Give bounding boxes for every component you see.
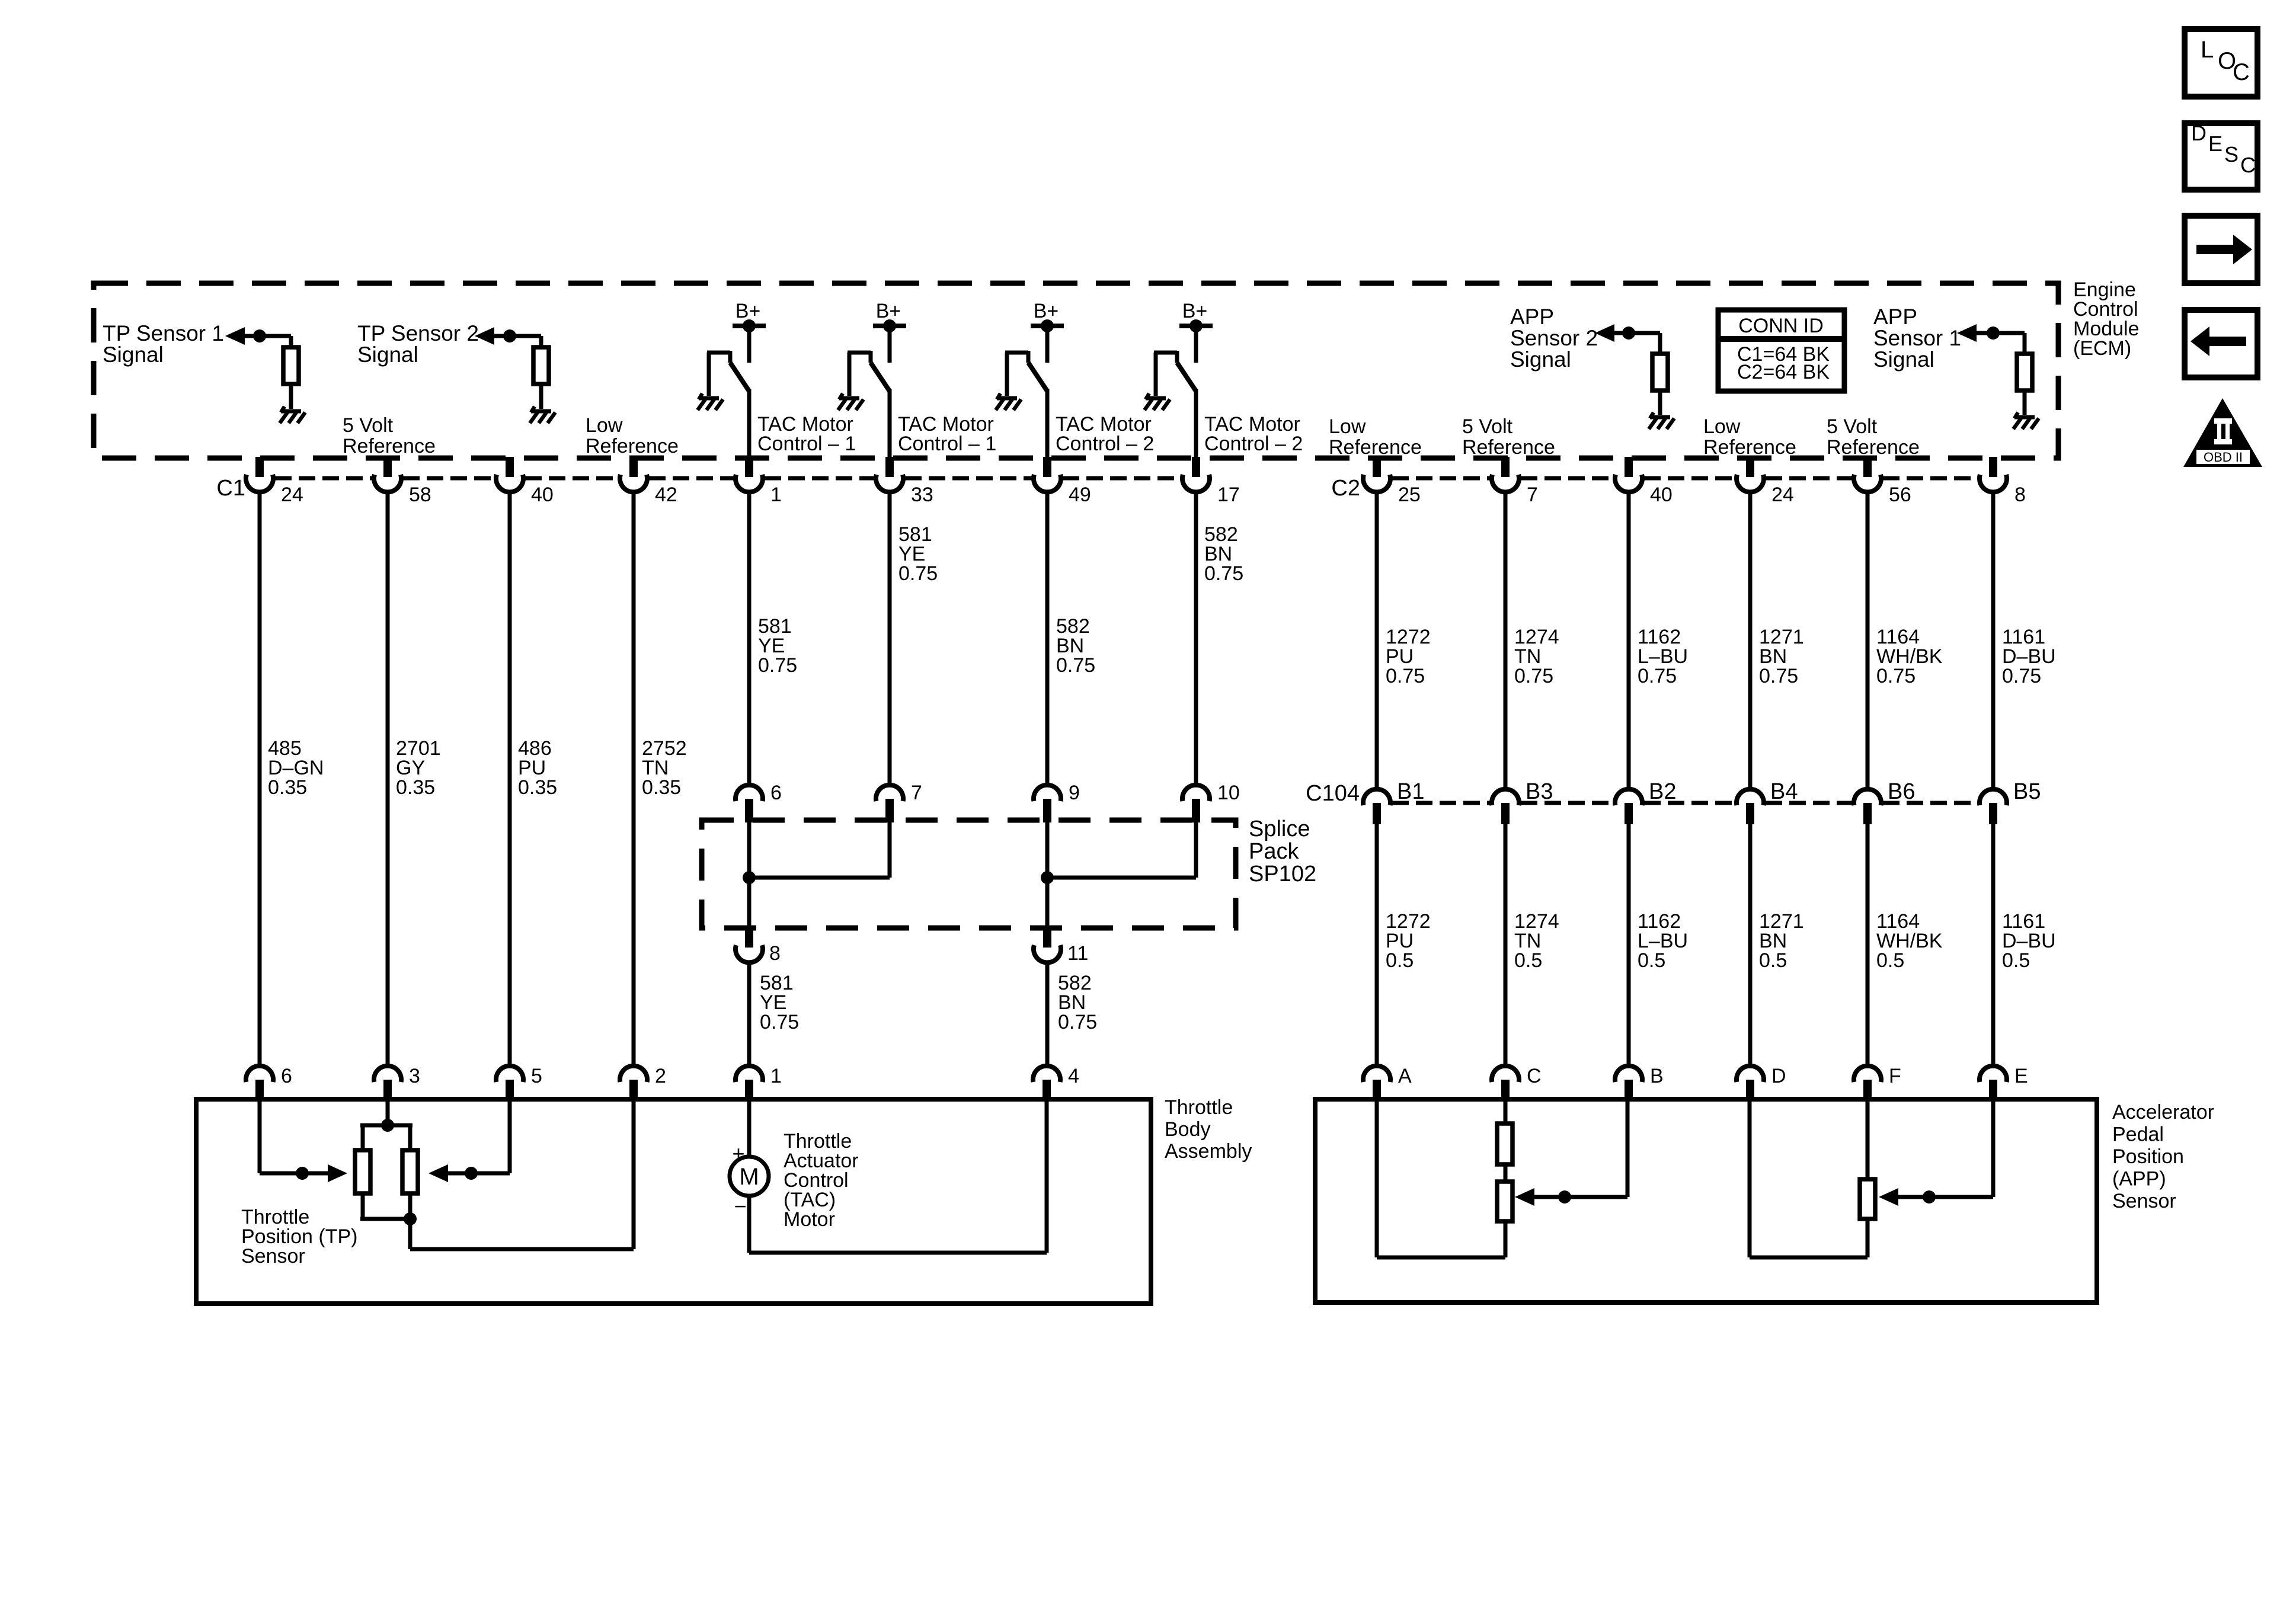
svg-text:17: 17: [1217, 484, 1240, 506]
APP Sensor 1 node dot: [1987, 327, 2000, 340]
resistor pull-up APP Sensor 2: [1629, 331, 1660, 335]
pin D of APP sensor connector (terminal): [1737, 1066, 1764, 1082]
svg-text:0.75: 0.75: [1204, 562, 1243, 585]
resistor pull-up TP Sensor 1: [260, 334, 291, 338]
wire 1164 WH/BK (C104 to APP sensor): [1866, 824, 1870, 1068]
TP sensor top bracket: [361, 1125, 365, 1150]
svg-text:Accelerator: Accelerator: [2112, 1101, 2214, 1124]
TP Sensor 2 signal arrow: [475, 327, 494, 345]
svg-text:(APP): (APP): [2112, 1168, 2166, 1190]
svg-text:TP Sensor 2: TP Sensor 2: [357, 321, 479, 345]
wire 582 BN (C1-17 to SP102-10): [1194, 491, 1198, 787]
svg-text:C: C: [1527, 1065, 1542, 1087]
pin B of APP sensor connector (terminal): [1615, 1066, 1642, 1082]
svg-text:L: L: [2201, 37, 2214, 63]
svg-text:B+: B+: [1182, 300, 1208, 322]
TP sensor wiper 2 dot: [465, 1167, 478, 1180]
svg-text:0.75: 0.75: [1876, 665, 1916, 687]
pin 17 of C1 (terminal): [1192, 457, 1200, 477]
svg-text:B+: B+: [736, 300, 761, 322]
pin 8 of C2 (terminal): [1989, 457, 1997, 477]
svg-text:40: 40: [531, 484, 554, 506]
pin 2 of throttle body connector (terminal): [620, 1066, 647, 1082]
svg-text:Reference: Reference: [1329, 436, 1422, 459]
pin 3 of throttle body connector (terminal): [374, 1066, 401, 1082]
svg-text:B+: B+: [1034, 300, 1059, 322]
pin B4 of C104 (terminal): [1737, 789, 1764, 805]
wire 1162 L-BU (C104 to APP sensor): [1627, 824, 1631, 1068]
TP sensor 5V feed wire: [386, 1099, 390, 1125]
pin 49 of C1 (terminal): [1043, 457, 1051, 477]
APP pot 2 resistor R5: [1860, 1179, 1875, 1219]
svg-text:0.5: 0.5: [1386, 949, 1414, 972]
TP sensor wiper 1 dot: [296, 1167, 309, 1180]
ground TP Sensor 1 resistor: [281, 409, 301, 414]
APP pot 1 5V feed wire: [1504, 1099, 1508, 1124]
pin A of APP sensor connector (terminal): [1363, 1066, 1390, 1082]
svg-text:C1: C1: [216, 476, 245, 501]
svg-text:D: D: [2191, 121, 2207, 145]
svg-text:Reference: Reference: [343, 435, 436, 457]
resistor pull-up APP Sensor 1: [1993, 331, 2025, 335]
svg-text:42: 42: [655, 484, 677, 506]
icon OBD II triangle: [2183, 398, 2262, 467]
pin B2 of C104 (terminal): [1615, 789, 1642, 805]
svg-text:B1: B1: [1397, 779, 1424, 804]
wire 581 YE (SP102-8 to TAC motor): [747, 962, 752, 1068]
splice node dot (582): [1041, 871, 1054, 884]
svg-text:C2: C2: [1331, 476, 1360, 501]
svg-text:Sensor 1: Sensor 1: [1873, 326, 1961, 350]
TP sensor resistor R2: [402, 1150, 418, 1193]
icon right-arrow box: [2185, 216, 2257, 283]
svg-text:APP: APP: [1510, 305, 1554, 329]
pin F of APP sensor connector (terminal): [1854, 1066, 1881, 1082]
connector C1 dotted harness line: [275, 476, 1181, 481]
svg-text:0.75: 0.75: [1058, 1011, 1097, 1033]
pin 7 of C2 (terminal): [1501, 457, 1510, 477]
svg-text:Sensor: Sensor: [2112, 1190, 2176, 1212]
wire 1271 BN (C2 to C104): [1748, 491, 1753, 791]
svg-text:3: 3: [409, 1065, 420, 1087]
svg-text:Signal: Signal: [1510, 347, 1571, 372]
svg-text:8: 8: [2014, 484, 2026, 506]
TP sensor resistor R1: [355, 1150, 370, 1193]
svg-text:B5: B5: [2013, 779, 2041, 804]
svg-text:Reference: Reference: [1703, 436, 1796, 459]
svg-text:0.75: 0.75: [2002, 665, 2041, 687]
TP sensor low-ref node dot: [404, 1212, 417, 1225]
pin 33 of C1 (terminal): [885, 457, 894, 477]
pin 25 of C2 (terminal): [1373, 457, 1381, 477]
splice pack SP102 dashed box: [702, 820, 1236, 928]
svg-text:C104: C104: [1306, 781, 1360, 806]
svg-text:C2=64 BK: C2=64 BK: [1737, 361, 1830, 383]
pin 42 of C1 (terminal): [629, 457, 638, 477]
APP pot 1 wiper dot: [1558, 1190, 1571, 1204]
svg-text:Sensor 2: Sensor 2: [1510, 326, 1598, 350]
svg-text:0.35: 0.35: [268, 776, 307, 799]
Accelerator Pedal Position (APP) Sensor box: [1315, 1099, 2097, 1302]
svg-text:0.5: 0.5: [1876, 949, 1904, 972]
svg-text:7: 7: [911, 782, 922, 804]
icon DESC box: [2185, 123, 2257, 190]
svg-text:8: 8: [769, 942, 781, 965]
APP pot 1 resistor R4: [1497, 1182, 1512, 1221]
svg-text:Position: Position: [2112, 1145, 2184, 1168]
TP Sensor 1 node dot: [253, 329, 266, 343]
pin 10 of SP102 (terminal): [1182, 785, 1210, 801]
svg-text:Motor: Motor: [784, 1208, 835, 1231]
svg-text:0.75: 0.75: [1386, 665, 1425, 687]
svg-text:6: 6: [770, 782, 782, 804]
svg-text:1: 1: [770, 484, 782, 506]
APP pot 2 5V feed wire: [1866, 1099, 1870, 1179]
svg-text:Sensor: Sensor: [241, 1245, 305, 1267]
APP pot 2 wiper wire: [1991, 1099, 1996, 1197]
pin 5 of throttle body connector (terminal): [496, 1066, 523, 1082]
svg-text:58: 58: [409, 484, 431, 506]
wire 1272 PU (C104 to APP sensor): [1375, 824, 1379, 1068]
svg-text:0.75: 0.75: [1514, 665, 1553, 687]
svg-text:(ECM): (ECM): [2073, 337, 2131, 360]
APP pot 2 wiper dot: [1923, 1190, 1936, 1204]
svg-text:M: M: [739, 1164, 759, 1190]
APP Sensor 2 signal arrow: [1595, 324, 1614, 342]
splice node dot (581): [743, 871, 756, 884]
wire 1272 PU (C2 to C104): [1375, 491, 1379, 791]
wire 2752 TN (C1-42 to TP2): [632, 491, 636, 1068]
TP sensor wiper 2 wire: [508, 1099, 512, 1173]
svg-text:SP102: SP102: [1249, 862, 1316, 886]
svg-text:B2: B2: [1649, 779, 1676, 804]
connector C104 dotted harness line: [1392, 801, 1978, 805]
svg-text:11: 11: [1067, 942, 1088, 965]
svg-text:Low: Low: [1703, 415, 1741, 438]
svg-text:Control – 2: Control – 2: [1204, 433, 1303, 455]
TP sensor low-ref return wire: [408, 1219, 412, 1249]
wire 485 D-GN (C1-24 to TP6): [258, 491, 262, 1068]
svg-text:0.75: 0.75: [1759, 665, 1798, 687]
svg-text:OBD II: OBD II: [2204, 450, 2243, 465]
svg-text:F: F: [1889, 1065, 1901, 1087]
pin 40 of C1 (terminal): [506, 457, 514, 477]
svg-text:0.5: 0.5: [1514, 949, 1542, 972]
svg-text:B4: B4: [1770, 779, 1798, 804]
pin B3 of C104 (terminal): [1492, 789, 1519, 805]
svg-text:Signal: Signal: [103, 343, 164, 367]
APP pot 1 resistor R3: [1497, 1124, 1512, 1164]
svg-text:0.75: 0.75: [1638, 665, 1677, 687]
splice jumper 6 to 7: [749, 876, 890, 880]
svg-text:0.35: 0.35: [642, 776, 681, 799]
svg-text:9: 9: [1069, 782, 1080, 804]
svg-text:B+: B+: [876, 300, 901, 322]
svg-text:0.75: 0.75: [898, 562, 938, 585]
APP Sensor 2 node dot: [1622, 327, 1635, 340]
resistor pull-up TP Sensor 2: [510, 334, 541, 338]
icon LOC box: [2185, 29, 2257, 97]
svg-text:4: 4: [1068, 1065, 1079, 1087]
svg-text:5: 5: [531, 1065, 542, 1087]
TAC motor M1 circle: [730, 1157, 769, 1196]
svg-text:24: 24: [281, 484, 303, 506]
TAC motor feed wire: [747, 1099, 752, 1157]
APP pot 1 link wire: [1504, 1164, 1508, 1182]
svg-text:0.5: 0.5: [1638, 949, 1665, 972]
TP sensor bottom bracket: [361, 1193, 365, 1219]
svg-text:CONN ID: CONN ID: [1738, 315, 1824, 337]
svg-text:Assembly: Assembly: [1165, 1140, 1252, 1163]
svg-text:S: S: [2224, 142, 2239, 167]
svg-text:+: +: [732, 1141, 744, 1166]
pin B6 of C104 (terminal): [1854, 789, 1881, 805]
svg-text:Reference: Reference: [1462, 436, 1555, 459]
TP Sensor 2 node dot: [503, 329, 516, 343]
ECM dashed enclosure box: [94, 283, 2058, 458]
wire 581 YE (C1-1 to SP102-6): [747, 491, 752, 787]
TAC driver transistor switch Q1: [699, 396, 719, 401]
pin 6 of SP102 (terminal): [736, 785, 763, 801]
svg-text:7: 7: [1527, 484, 1538, 506]
CONN ID table: [1718, 310, 1844, 391]
svg-text:TP Sensor 1: TP Sensor 1: [103, 321, 224, 345]
TP Sensor 1 signal arrow: [225, 327, 245, 345]
APP Sensor 1 signal arrow: [1957, 324, 1977, 342]
svg-text:Throttle: Throttle: [1165, 1096, 1233, 1119]
wire 1162 L-BU (C2 to C104): [1627, 491, 1631, 791]
pin 6 of throttle body connector (terminal): [246, 1066, 273, 1082]
svg-text:APP: APP: [1873, 305, 1917, 329]
pin 24 of C2 (terminal): [1746, 457, 1754, 477]
svg-text:33: 33: [911, 484, 933, 506]
wire 1271 BN (C104 to APP sensor): [1748, 824, 1753, 1068]
pin 4 of throttle body connector (terminal): [1033, 1066, 1060, 1082]
svg-text:C: C: [2240, 153, 2256, 177]
svg-text:6: 6: [281, 1065, 292, 1087]
TP sensor wiper 1 wire: [258, 1099, 262, 1173]
TP sensor wiper 1 arrow: [328, 1164, 347, 1182]
splice jumper 9 to 10: [1047, 876, 1196, 880]
svg-text:C: C: [2233, 59, 2250, 85]
APP pot 1 wiper arrow: [1515, 1188, 1534, 1206]
svg-text:Control – 1: Control – 1: [757, 433, 856, 455]
wire 581 YE (C1-33 to SP102-7): [888, 491, 892, 787]
ground TP Sensor 2 resistor: [531, 409, 551, 414]
APP pot 2 wiper arrow: [1879, 1188, 1898, 1206]
svg-text:E: E: [2208, 132, 2223, 156]
wire 1164 WH/BK (C2 to C104): [1866, 491, 1870, 791]
svg-text:0.5: 0.5: [2002, 949, 2030, 972]
svg-text:Pedal: Pedal: [2112, 1124, 2164, 1146]
ground APP Sensor 2 resistor: [1650, 415, 1670, 420]
svg-text:E: E: [2014, 1065, 2028, 1087]
wire 486 PU (C1-40 to TP5): [508, 491, 512, 1068]
TAC driver transistor switch Q3: [997, 396, 1017, 401]
svg-text:Low: Low: [586, 414, 623, 437]
pin 8 of SP102 (terminal): [745, 928, 753, 948]
TP sensor 5V node dot: [381, 1119, 394, 1132]
svg-text:Control – 2: Control – 2: [1056, 433, 1154, 455]
svg-text:Low: Low: [1329, 415, 1366, 438]
icon left-arrow box: [2185, 310, 2257, 377]
svg-text:1: 1: [770, 1065, 782, 1087]
svg-text:40: 40: [1650, 484, 1673, 506]
pin 7 of SP102 (terminal): [876, 785, 903, 801]
wire 1274 TN (C104 to APP sensor): [1504, 824, 1508, 1068]
APP pot 2 bottom wire: [1866, 1219, 1870, 1257]
wire 1161 D-BU (C2 to C104): [1991, 491, 1996, 791]
svg-text:25: 25: [1398, 484, 1421, 506]
pin 1 of throttle body connector (terminal): [736, 1066, 763, 1082]
wire 582 BN (SP102-11 to TAC motor): [1045, 962, 1050, 1068]
svg-text:−: −: [734, 1194, 746, 1218]
pin E of APP sensor connector (terminal): [1980, 1066, 2007, 1082]
svg-text:10: 10: [1217, 782, 1240, 804]
wire 1161 D-BU (C104 to APP sensor): [1991, 824, 1996, 1068]
connector C2 dotted harness line: [1392, 476, 1978, 481]
svg-text:Signal: Signal: [1873, 347, 1934, 372]
APP pot 1 wiper wire: [1626, 1099, 1630, 1197]
splice SP102 bus wire 9-11: [1045, 822, 1050, 928]
svg-text:0.75: 0.75: [758, 654, 797, 677]
svg-text:Reference: Reference: [1827, 436, 1920, 459]
svg-text:5 Volt: 5 Volt: [1827, 415, 1878, 438]
svg-text:0.75: 0.75: [1056, 654, 1095, 677]
TAC motor return wire: [747, 1196, 752, 1253]
svg-text:Body: Body: [1165, 1118, 1211, 1141]
TAC driver transistor switch Q4: [1146, 396, 1166, 401]
svg-text:Control – 1: Control – 1: [898, 433, 996, 455]
Throttle Body Assembly box: [196, 1099, 1151, 1304]
pin 40 of C2 (terminal): [1625, 457, 1633, 477]
svg-text:2: 2: [655, 1065, 666, 1087]
splice SP102 bus wire 6-8: [747, 822, 752, 928]
svg-text:0.35: 0.35: [396, 776, 435, 799]
pin B5 of C104 (terminal): [1980, 789, 2007, 805]
pin 24 of C1 (terminal): [255, 457, 264, 477]
pin 9 of SP102 (terminal): [1034, 785, 1061, 801]
APP pot 1 bottom wire: [1504, 1221, 1508, 1257]
svg-text:56: 56: [1889, 484, 1911, 506]
pin C of APP sensor connector (terminal): [1492, 1066, 1519, 1082]
wire 2701 GY (C1-58 to TP3): [386, 491, 390, 1068]
svg-text:B6: B6: [1888, 779, 1915, 804]
svg-text:Pack: Pack: [1249, 839, 1299, 864]
pin 11 of SP102 (terminal): [1043, 928, 1051, 948]
svg-text:Reference: Reference: [586, 435, 679, 457]
svg-text:Splice: Splice: [1249, 817, 1310, 841]
svg-text:5 Volt: 5 Volt: [343, 414, 394, 437]
wire 582 BN (C1-49 to SP102-9): [1045, 491, 1050, 787]
ground APP Sensor 1 resistor: [2014, 415, 2035, 420]
wire 1274 TN (C2 to C104): [1504, 491, 1508, 791]
svg-text:0.5: 0.5: [1759, 949, 1787, 972]
svg-text:49: 49: [1069, 484, 1091, 506]
TP sensor wiper 2 arrow: [428, 1164, 448, 1182]
svg-text:5 Volt: 5 Volt: [1462, 415, 1513, 438]
svg-text:Signal: Signal: [357, 343, 418, 367]
svg-text:0.75: 0.75: [760, 1011, 799, 1033]
TAC driver transistor switch Q2: [839, 396, 859, 401]
svg-text:0.35: 0.35: [518, 776, 557, 799]
svg-text:A: A: [1398, 1065, 1412, 1087]
pin 56 of C2 (terminal): [1863, 457, 1872, 477]
svg-text:B3: B3: [1526, 779, 1553, 804]
pin B1 of C104 (terminal): [1363, 789, 1390, 805]
pin 1 of C1 (terminal): [745, 457, 753, 477]
pin 58 of C1 (terminal): [383, 457, 392, 477]
svg-text:B: B: [1650, 1065, 1664, 1087]
svg-text:24: 24: [1771, 484, 1794, 506]
svg-text:D: D: [1771, 1065, 1786, 1087]
